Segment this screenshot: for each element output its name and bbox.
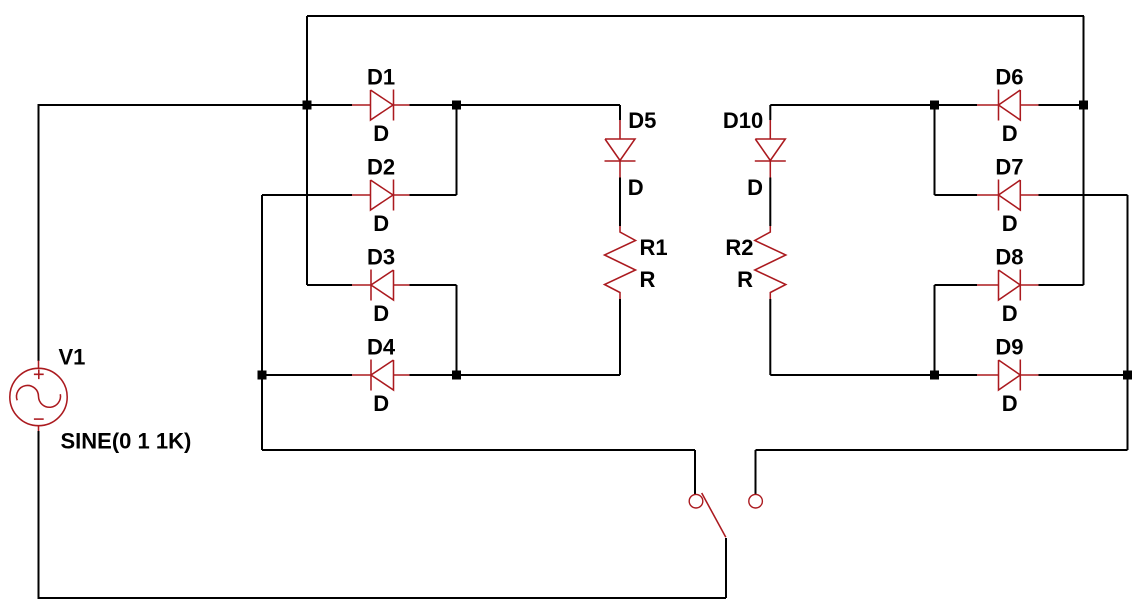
- svg-text:D: D: [1002, 211, 1018, 236]
- svg-text:D5: D5: [628, 108, 656, 133]
- svg-text:D: D: [373, 391, 389, 416]
- svg-text:D10: D10: [723, 108, 763, 133]
- svg-text:D3: D3: [367, 245, 395, 270]
- svg-text:D1: D1: [367, 65, 395, 90]
- svg-text:D4: D4: [367, 335, 396, 360]
- svg-text:D: D: [747, 175, 763, 200]
- svg-text:D6: D6: [995, 65, 1023, 90]
- svg-text:R: R: [640, 267, 656, 292]
- svg-text:D: D: [1002, 301, 1018, 326]
- svg-text:D9: D9: [995, 335, 1023, 360]
- svg-text:R: R: [737, 267, 753, 292]
- svg-text:D: D: [628, 175, 644, 200]
- svg-text:SINE(0 1 1K): SINE(0 1 1K): [61, 429, 192, 454]
- svg-text:R2: R2: [725, 235, 753, 260]
- svg-text:D2: D2: [367, 155, 395, 180]
- svg-text:R1: R1: [640, 235, 668, 260]
- svg-text:D: D: [1002, 391, 1018, 416]
- svg-text:D: D: [373, 121, 389, 146]
- svg-text:D: D: [1002, 121, 1018, 146]
- svg-text:D8: D8: [995, 245, 1023, 270]
- svg-text:D: D: [373, 211, 389, 236]
- svg-text:V1: V1: [59, 345, 86, 370]
- svg-text:D7: D7: [995, 155, 1023, 180]
- svg-text:D: D: [373, 301, 389, 326]
